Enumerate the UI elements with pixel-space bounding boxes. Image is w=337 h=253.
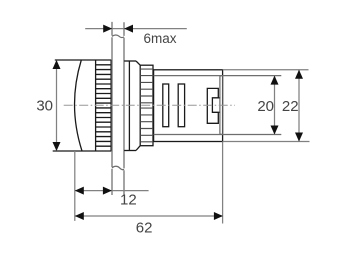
- arrow 22 up: [295, 70, 303, 79]
- dim 22 line: [298, 70, 300, 142]
- body inner top line + ext 20 top: [154, 75, 282, 77]
- svg-text:62: 62: [136, 220, 153, 237]
- bezel knurl ribs: [96, 65, 112, 146]
- arrow 30 up: [53, 60, 61, 69]
- arrow 12 right: [103, 187, 112, 195]
- panel break squiggle bottom: [112, 166, 124, 169]
- rear plate: [220, 76, 223, 135]
- dim 62 line: [75, 215, 223, 217]
- body outline: [154, 70, 223, 142]
- bezel knurl left edge: [95, 60, 97, 151]
- lens bottom edge + 30 extension line: [53, 150, 112, 152]
- collar bottom edge: [124, 150, 136, 152]
- arrow 6max right: [103, 25, 112, 33]
- ext line body right down: [222, 142, 224, 224]
- body inner bottom line + ext 20 bottom: [154, 134, 282, 136]
- svg-text:20: 20: [257, 98, 274, 115]
- chamfer top: [136, 61, 140, 65]
- lens dome arc: [75, 60, 82, 151]
- dim 30 line: [56, 60, 58, 151]
- arrow 20 down: [271, 126, 279, 135]
- collar top edge: [124, 60, 136, 62]
- arrow 12 left: [75, 187, 84, 195]
- arrow 30 down: [53, 142, 61, 151]
- svg-text:22: 22: [282, 98, 299, 115]
- ext 22 bottom: [223, 141, 310, 143]
- dim 6max left line: [85, 28, 187, 30]
- ext line from lens apex down: [74, 151, 76, 221]
- ext 22 top: [223, 69, 309, 71]
- dim 12 line: [75, 190, 149, 192]
- arrow 6max left: [124, 25, 133, 33]
- panel right line: [123, 22, 125, 195]
- arrow 62 left: [75, 212, 84, 220]
- terminal clamp: [207, 88, 220, 123]
- lock nut outline: [140, 65, 153, 146]
- arrow 22 down: [295, 133, 303, 142]
- panel left line: [111, 22, 113, 195]
- svg-text:12: 12: [120, 191, 137, 208]
- dim 20 line: [274, 76, 276, 135]
- chamfer bottom: [136, 146, 140, 151]
- svg-text:6max: 6max: [144, 31, 177, 46]
- lock nut ribs: [140, 69, 153, 142]
- collar seam: [128, 61, 130, 151]
- panel break squiggle top: [112, 35, 124, 38]
- vent slot 2: [178, 84, 184, 127]
- centerline: [64, 104, 235, 106]
- bezel knurl right edge: [110, 60, 112, 151]
- vent slot 1: [163, 84, 169, 127]
- lens top edge + 30 extension line: [55, 59, 112, 61]
- arrow 62 right: [214, 212, 223, 220]
- svg-text:30: 30: [36, 97, 53, 114]
- arrow 20 up: [271, 76, 279, 85]
